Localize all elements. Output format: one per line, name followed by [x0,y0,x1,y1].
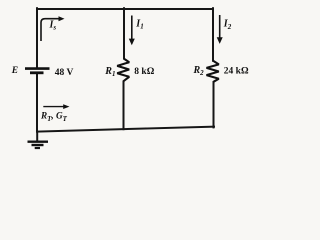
svg-text:E: E [11,66,18,76]
svg-text:8 kΩ: 8 kΩ [134,67,154,77]
svg-text:24 kΩ: 24 kΩ [224,67,249,77]
svg-text:48 V: 48 V [55,68,74,78]
